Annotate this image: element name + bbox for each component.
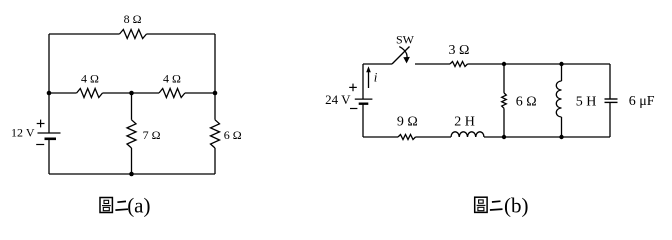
svg-text:3 Ω: 3 Ω [449, 43, 470, 58]
resistor R 4ohm left [77, 89, 103, 98]
resistor R 4ohm right [159, 89, 185, 98]
wire right vertical b (above capacitor) [609, 64, 611, 99]
wire middle row, left of first 4-ohm [49, 92, 77, 94]
node junction center-middle [129, 91, 134, 96]
svg-text:9 Ω: 9 Ω [397, 114, 418, 129]
wire top-left segment (top wire, left of 8-ohm) [49, 33, 120, 35]
svg-text:5 H: 5 H [576, 94, 597, 109]
svg-text:i: i [374, 69, 378, 84]
resistor R 6ohm (vertical, a) [211, 120, 220, 148]
wire bottom b right of 2H [484, 136, 610, 138]
resistor R 7ohm (vertical) [127, 120, 136, 148]
svg-text:2 H: 2 H [454, 114, 475, 129]
node bottom of 5H branch [559, 135, 563, 139]
svg-text:4 Ω: 4 Ω [81, 72, 99, 86]
svg-text:6 Ω: 6 Ω [516, 94, 537, 109]
capacitor 6uF plates [605, 99, 618, 102]
node bottom of 6-ohm branch [502, 135, 506, 139]
resistor R 6ohm (vertical, b) [502, 93, 507, 108]
svg-text:(b): (b) [504, 194, 529, 218]
wire bottom (a) [49, 173, 215, 175]
wire right vertical b (below capacitor) [609, 102, 611, 137]
svg-text:7 Ω: 7 Ω [143, 128, 161, 142]
wire middle vertical above 7-ohm [131, 93, 133, 120]
wire top-right segment (top wire, right of 8-ohm) [147, 33, 216, 35]
resistor R 8ohm (top) [120, 30, 147, 39]
node junction right-middle [213, 91, 218, 96]
minus sign of battery 12V [36, 144, 44, 146]
caption glyph er (b) [490, 201, 503, 210]
svg-text:24 V: 24 V [325, 92, 351, 107]
wire top b right of 3-ohm [468, 63, 611, 65]
current arrow i [366, 66, 371, 88]
wire right vertical (a) [214, 34, 216, 93]
inductor L 2H [451, 132, 484, 137]
switch SW blade [392, 47, 410, 65]
wire left vertical b (below battery) [362, 104, 364, 137]
svg-text:(a): (a) [127, 194, 150, 218]
battery 12V plates [38, 133, 61, 139]
svg-text:8 Ω: 8 Ω [124, 12, 142, 26]
wire middle row right end [185, 92, 215, 94]
resistor R 3ohm [450, 62, 468, 67]
wire 5H branch bottom stub [561, 117, 563, 137]
svg-text:6 μF: 6 μF [629, 94, 655, 109]
wire left vertical (top of battery) [48, 34, 50, 133]
wire 6-ohm branch top stub [503, 64, 505, 93]
wire middle row between resistors [103, 92, 160, 94]
svg-text:6 Ω: 6 Ω [224, 128, 242, 142]
wire top b switch to 3-ohm [415, 63, 450, 65]
wire right vertical above 6-ohm [214, 93, 216, 120]
wire bottom b between 9-ohm and 2H [416, 136, 452, 138]
caption glyph tu (b) [475, 197, 487, 212]
switch SW arrow [399, 47, 407, 59]
node top of 5H branch [559, 62, 563, 66]
battery 24V plates [355, 99, 373, 104]
svg-text:SW: SW [396, 32, 415, 46]
minus sign of battery 24V [350, 108, 357, 110]
plus sign of battery 12V [37, 120, 45, 128]
wire left vertical b (top of battery) [362, 64, 364, 99]
inductor L 5H (vertical) [556, 81, 561, 117]
svg-text:4 Ω: 4 Ω [163, 72, 181, 86]
svg-text:12 V: 12 V [11, 126, 35, 140]
wire top b to switch [363, 63, 392, 65]
node junction bottom-center [129, 172, 134, 177]
resistor R 9ohm [398, 135, 416, 140]
wire bottom b left segment [363, 136, 398, 138]
wire right vertical below 6-ohm [214, 148, 216, 174]
caption glyph tu (a) [100, 198, 112, 213]
node junction left-middle [47, 91, 52, 96]
node top of 6-ohm branch [502, 62, 506, 66]
caption glyph er (a) [115, 201, 128, 210]
wire 5H branch top stub [561, 64, 563, 81]
wire middle vertical below 7-ohm [131, 148, 133, 174]
wire left vertical (below battery) [48, 139, 50, 174]
plus sign of battery 24V [349, 84, 357, 92]
wire 6-ohm branch bottom stub [503, 108, 505, 137]
